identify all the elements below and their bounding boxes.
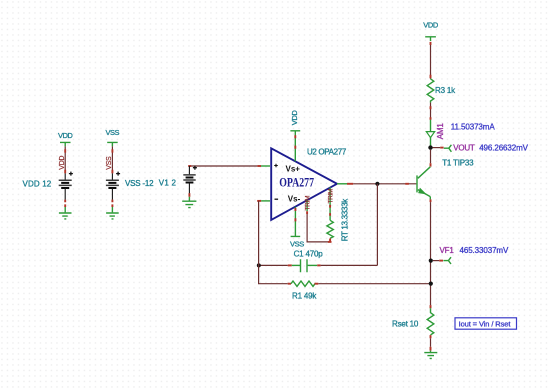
svg-text:11.50373mA: 11.50373mA [451,123,496,132]
svg-text:AM1: AM1 [436,123,445,140]
svg-text:VDD 12: VDD 12 [23,180,52,189]
svg-text:OPA277: OPA277 [279,177,314,190]
svg-text:RT 13.3333k: RT 13.3333k [340,198,349,242]
svg-text:465.33037mV: 465.33037mV [460,246,509,255]
svg-text:VF1: VF1 [440,246,455,255]
svg-text:VDD: VDD [59,156,66,170]
svg-text:VDD: VDD [423,20,439,29]
svg-text:V1 2: V1 2 [159,179,177,188]
svg-text:U2 OPA277: U2 OPA277 [307,148,347,157]
svg-text:VOUT: VOUT [453,144,475,153]
svg-text:VDD: VDD [58,131,73,140]
svg-text:C1 470p: C1 470p [294,250,324,259]
svg-text:Iout = Vin / Rset: Iout = Vin / Rset [459,320,512,329]
svg-text:496.26632mV: 496.26632mV [479,144,528,153]
svg-text:Vs-: Vs- [288,195,301,204]
svg-text:VSS: VSS [106,156,113,170]
svg-text:VDD: VDD [290,110,299,126]
svg-text:VSS -12: VSS -12 [125,179,154,188]
svg-text:VSS: VSS [105,128,119,137]
svg-text:VSS: VSS [290,239,304,248]
svg-text:T1 TIP33: T1 TIP33 [442,159,474,168]
svg-text:Vs+: Vs+ [286,165,301,174]
svg-text:R1 49k: R1 49k [292,291,317,300]
svg-text:R3 1k: R3 1k [435,86,456,95]
svg-text:Rset 10: Rset 10 [392,320,419,329]
svg-text:TRIM: TRIM [305,196,312,211]
svg-text:TRIM: TRIM [328,189,335,204]
